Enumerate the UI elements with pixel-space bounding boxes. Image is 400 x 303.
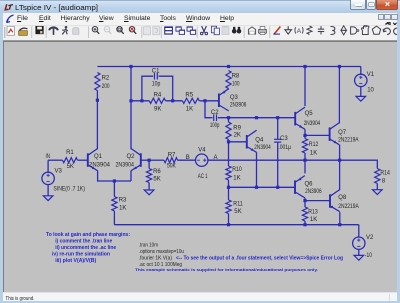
toolbar separator xyxy=(45,26,47,38)
wire node to C3 xyxy=(257,117,278,119)
svg-text:1K: 1K xyxy=(233,175,240,181)
junction emitters/R3 xyxy=(113,179,116,182)
app icon LTspice xyxy=(4,3,15,13)
junction R9/R10/Q4 base xyxy=(227,140,230,143)
wire IN to R1 xyxy=(48,159,62,161)
icon undo xyxy=(383,28,390,34)
icon halt (disabled) xyxy=(73,27,79,34)
svg-text:R11: R11 xyxy=(233,202,243,208)
junction R4/R5/C1 xyxy=(171,99,174,102)
wire Q5 collector up xyxy=(304,67,306,107)
resistor R11 xyxy=(226,200,231,214)
wire Q3 emitter stub xyxy=(228,89,230,90)
svg-text:50K: 50K xyxy=(167,164,176,170)
transistor Q1 xyxy=(87,153,89,167)
wire Q5 emitter to node xyxy=(304,129,306,135)
junction R2/Q1col xyxy=(96,99,99,102)
svg-text:-10: -10 xyxy=(365,253,373,259)
voltage source V1 xyxy=(355,74,367,86)
resistor R8 xyxy=(226,71,231,89)
voltage source V3 xyxy=(42,172,54,184)
wire C3 bottom down xyxy=(277,142,279,187)
svg-text:.fourier 1K V(a): .fourier 1K V(a) xyxy=(139,255,172,261)
wire node to R11 xyxy=(228,187,230,200)
wire V2 to ground xyxy=(358,250,360,256)
wire R11 to V- rail xyxy=(228,214,230,225)
toolbar gripper xyxy=(4,27,6,38)
transistor Q7 xyxy=(329,127,331,140)
resistor R4 xyxy=(149,98,165,103)
wire node A line xyxy=(208,159,377,161)
wire node to R12 xyxy=(304,135,306,138)
svg-text:5K: 5K xyxy=(234,209,241,215)
svg-text:2N3904: 2N3904 xyxy=(304,121,321,127)
svg-text:C1: C1 xyxy=(152,69,160,75)
svg-text:.tran 10m: .tran 10m xyxy=(139,243,158,249)
junction Q7e/Q8c/A xyxy=(338,159,341,162)
svg-text:2N2219A: 2N2219A xyxy=(338,138,359,144)
junction Q5e/R12/Q7base xyxy=(303,134,306,137)
icon place capacitor xyxy=(318,26,324,34)
wire R14 to ground xyxy=(376,184,378,190)
junction C3 bottom xyxy=(276,186,279,189)
wire Q8 emitter to V- rail xyxy=(339,212,341,225)
icon open xyxy=(19,28,28,35)
wire C2 to Q4 collector node xyxy=(218,117,257,119)
svg-text:V1: V1 xyxy=(367,72,375,78)
wire Q1 emitter to common node xyxy=(98,171,131,181)
wire rail down to Q2 collector xyxy=(130,67,132,150)
svg-text:R7: R7 xyxy=(168,152,176,158)
wire Q7 collector up xyxy=(338,67,340,124)
icon redo (cut off) xyxy=(394,28,400,34)
wire C3 to Q5 base xyxy=(278,117,296,119)
wire Q4 emitter down xyxy=(256,152,258,187)
ground V2 xyxy=(354,255,364,260)
svg-text:This example schematic is supp: This example schematic is supplied for i… xyxy=(135,268,318,272)
wire node to R4 xyxy=(131,100,149,102)
svg-text:Q5: Q5 xyxy=(305,111,314,117)
capacitor C3 xyxy=(274,138,281,140)
svg-text:9K: 9K xyxy=(154,106,161,112)
resistor R1 xyxy=(63,158,78,163)
icon draw wire (pencil) xyxy=(273,26,280,34)
wire node to Q6 base xyxy=(229,186,296,188)
svg-text:iv) re-run the simulation: iv) re-run the simulation xyxy=(52,251,110,257)
junction R12/Q6e/A xyxy=(303,159,306,162)
svg-text:R8: R8 xyxy=(232,74,240,80)
wire node to R7 xyxy=(149,159,164,161)
resistor R6 xyxy=(147,169,152,183)
junction Q4 col xyxy=(255,116,258,119)
wire rail to V1 xyxy=(360,67,362,75)
status bar xyxy=(3,292,397,301)
resistor R3 xyxy=(112,197,117,212)
icon paste (disabled) xyxy=(222,25,229,34)
transistor Q6 xyxy=(294,180,296,194)
svg-text:5K: 5K xyxy=(67,164,74,170)
icon copy xyxy=(211,26,219,35)
window title xyxy=(15,2,155,13)
svg-text:8: 8 xyxy=(382,179,386,185)
icon zoom in xyxy=(92,26,99,33)
svg-text:LTspice IV - [audioamp]: LTspice IV - [audioamp] xyxy=(15,5,98,12)
wire node to R13 xyxy=(304,201,306,207)
svg-text:iii) plot V(A)/V(B): iii) plot V(A)/V(B) xyxy=(55,258,96,264)
wire V- bottom rail xyxy=(114,224,358,226)
icon place inductor xyxy=(331,26,335,34)
wire R6 to ground xyxy=(148,183,150,190)
svg-text:.options maxstep=10u: .options maxstep=10u xyxy=(139,249,184,255)
wire R9 to node xyxy=(228,140,230,142)
svg-text:10p: 10p xyxy=(152,82,161,88)
ground R14 xyxy=(373,190,383,195)
voltage source V2 xyxy=(353,237,365,249)
svg-text:R13: R13 xyxy=(308,210,318,216)
wire A to R14 xyxy=(376,160,379,168)
toolbar separator xyxy=(243,26,245,38)
junction Q8/rail xyxy=(338,223,341,226)
svg-text:i) comment the .tran line: i) comment the .tran line xyxy=(55,239,113,245)
svg-text:1K: 1K xyxy=(310,217,317,223)
icon place component (star) xyxy=(341,25,346,34)
wire R4 to R5 xyxy=(166,100,183,102)
svg-text:Q7: Q7 xyxy=(338,130,347,136)
toolbar separator xyxy=(31,26,33,38)
wire node to R6 xyxy=(148,160,150,168)
svg-text:100: 100 xyxy=(232,81,240,87)
wire Q2 base to node xyxy=(141,159,149,161)
wire R10 to node xyxy=(228,180,230,187)
svg-text:V3: V3 xyxy=(55,168,63,174)
svg-text:2N3906: 2N3906 xyxy=(230,103,247,109)
ground V1 xyxy=(356,96,366,101)
junction R10/R11/Q6base xyxy=(227,186,230,189)
wire R2 bottom to Q1 collector xyxy=(96,91,98,150)
capacitor C2 xyxy=(213,114,215,121)
svg-text:Q2: Q2 xyxy=(127,154,136,160)
title bar xyxy=(0,0,400,13)
svg-text:2N3906: 2N3906 xyxy=(305,189,322,195)
wire R13 to V- rail xyxy=(304,221,306,225)
svg-text:Q8: Q8 xyxy=(338,195,347,201)
icon find binoculars xyxy=(232,26,241,33)
wire C1 left leg xyxy=(142,76,153,101)
icon place resistor xyxy=(307,25,312,34)
wire V+ top rail xyxy=(97,66,360,68)
svg-text:A: A xyxy=(297,28,302,35)
svg-text:Q3: Q3 xyxy=(230,95,239,101)
svg-text:AC 1: AC 1 xyxy=(198,174,208,180)
wire rail to V2 xyxy=(358,225,360,237)
wire node to R9 xyxy=(228,118,230,122)
wire node A to Q8 collector xyxy=(339,160,341,190)
junction rail/Q2col xyxy=(129,65,132,68)
wire R5 to Q3 base xyxy=(199,100,219,102)
junction Q2base/R6/R7 xyxy=(148,159,151,162)
caption button maximize/restore xyxy=(366,0,377,10)
svg-text:1K: 1K xyxy=(186,106,193,112)
junction rail/Q5col xyxy=(303,65,306,68)
svg-text:10: 10 xyxy=(367,88,374,94)
icon zoom rect xyxy=(117,26,124,33)
junction C3 top xyxy=(276,116,279,119)
wire Q6 emitter up to node A xyxy=(304,160,306,173)
capacitor C1 xyxy=(154,73,156,80)
caption button close xyxy=(376,0,398,10)
junction C1 left xyxy=(140,99,143,102)
transistor Q4 xyxy=(246,135,248,149)
caption button minimize xyxy=(350,0,366,10)
resistor R2 xyxy=(95,73,100,91)
junction Q6c/R13/Q8base xyxy=(303,199,306,202)
svg-text:V2: V2 xyxy=(366,235,374,241)
wire IN down to V3 xyxy=(47,160,49,172)
icon place label xyxy=(295,27,303,35)
resistor R10 xyxy=(226,166,231,180)
resistor R9 xyxy=(226,122,231,140)
svg-text:R5: R5 xyxy=(185,93,193,99)
svg-text:Q4: Q4 xyxy=(255,137,264,143)
wire R7 to V4 xyxy=(178,159,196,161)
wire C1 right leg xyxy=(159,76,173,101)
wire Q2 emitter down xyxy=(130,171,132,181)
svg-text:R4: R4 xyxy=(154,93,162,99)
icon save xyxy=(36,26,44,34)
junction Q3col/R9/C2 xyxy=(227,116,230,119)
icon move hand xyxy=(361,24,369,34)
wire node to C2 xyxy=(205,101,213,118)
junction Q4 emitter xyxy=(255,186,258,189)
svg-text:B: B xyxy=(186,155,190,161)
toolbar separator xyxy=(160,26,162,38)
svg-text:R2: R2 xyxy=(102,75,110,81)
junction R4 line left xyxy=(129,99,132,102)
icon tile windows xyxy=(164,26,173,34)
resistor R13 xyxy=(302,207,307,221)
icon disabled doc1 xyxy=(144,26,151,34)
wire Q6 collector to node xyxy=(304,198,306,201)
svg-text:ii) uncomment the .ac line: ii) uncomment the .ac line xyxy=(55,245,117,251)
svg-text:This is ground.: This is ground. xyxy=(6,295,35,301)
svg-text:R9: R9 xyxy=(233,126,241,132)
junction R13/rail xyxy=(303,223,306,226)
mdi child buttons xyxy=(378,14,385,21)
icon run xyxy=(62,26,68,35)
mdi child icon xyxy=(5,14,15,24)
resistor R14 xyxy=(375,169,380,184)
icon gate xyxy=(351,26,359,33)
wire node to Q7 base xyxy=(305,134,330,136)
toolbar separator xyxy=(269,26,271,38)
svg-text:A: A xyxy=(214,155,218,161)
svg-text:2K: 2K xyxy=(234,133,241,139)
menu bar xyxy=(3,13,397,25)
resistor R12 xyxy=(302,139,307,154)
icon new schematic xyxy=(7,26,15,35)
svg-text:1K: 1K xyxy=(119,205,126,211)
wire node down to R10 xyxy=(228,142,230,166)
svg-text:R1: R1 xyxy=(66,150,74,156)
svg-text:SINE(0 .7 1K): SINE(0 .7 1K) xyxy=(53,187,85,193)
svg-text:.001µ: .001µ xyxy=(278,145,291,151)
transistor Q3 xyxy=(218,94,220,108)
icon disabled doc2 xyxy=(153,26,160,34)
junction rail/R8 xyxy=(227,65,230,68)
wire node to Q4 base xyxy=(229,141,247,143)
svg-text:<-- To see the output of a .f: <-- To see the output of a .four stateme… xyxy=(176,255,343,261)
svg-text:2N3904: 2N3904 xyxy=(89,162,111,168)
svg-text:R12: R12 xyxy=(309,142,319,148)
voltage source V4 xyxy=(196,154,208,166)
svg-text:R10: R10 xyxy=(232,167,242,173)
ground V3 xyxy=(43,196,53,201)
icon drag (pentagon) xyxy=(372,26,380,34)
svg-text:R3: R3 xyxy=(119,197,127,203)
svg-text:C3: C3 xyxy=(280,136,288,142)
icon cut xyxy=(200,26,207,35)
toolbar separator xyxy=(88,26,90,38)
toolbar separator xyxy=(141,26,143,38)
svg-text:To look at gain and phase marg: To look at gain and phase margins: xyxy=(46,232,130,238)
svg-text:IN: IN xyxy=(46,154,51,160)
toolbar separator xyxy=(196,26,198,38)
wire R12 to node A line xyxy=(304,153,306,160)
svg-text:C2: C2 xyxy=(211,110,219,116)
svg-text:1K: 1K xyxy=(310,151,317,157)
transistor Q5 xyxy=(294,112,296,126)
wire V1 to ground xyxy=(360,87,362,97)
ground R6 xyxy=(144,190,154,195)
wire R3 to V- rail xyxy=(113,211,115,225)
toolbar xyxy=(3,25,397,41)
svg-text:R14: R14 xyxy=(380,171,390,177)
svg-text:R6: R6 xyxy=(153,169,161,175)
icon cascade 1 xyxy=(176,26,186,34)
junction rail/Q7col xyxy=(338,65,341,68)
svg-text:Q1: Q1 xyxy=(94,154,103,160)
icon place ground xyxy=(285,26,292,34)
svg-text:2N3904: 2N3904 xyxy=(254,145,271,151)
junction R11/rail xyxy=(227,223,230,226)
wire node to C3 top xyxy=(277,118,279,139)
icon cascade 2 xyxy=(187,26,196,34)
icon zoom back (disabled) xyxy=(104,26,111,33)
wire node to Q8 base xyxy=(305,200,330,202)
svg-text:2N2219A: 2N2219A xyxy=(338,204,359,210)
svg-text:V4: V4 xyxy=(198,148,206,154)
svg-text:200: 200 xyxy=(102,84,111,90)
svg-text:Q6: Q6 xyxy=(305,181,314,187)
wire R1 to Q1 base xyxy=(78,159,88,161)
resistor R7 xyxy=(164,158,178,163)
wire Q7 emitter to node A xyxy=(339,145,341,160)
transistor Q8 xyxy=(329,194,331,208)
svg-text:5K: 5K xyxy=(153,177,160,183)
icon print preview xyxy=(248,26,255,33)
icon print xyxy=(258,26,266,34)
junction Q3 base xyxy=(203,99,206,102)
resistor R5 xyxy=(182,98,199,103)
wire common node to R3 xyxy=(113,181,115,197)
transistor Q2 xyxy=(140,153,142,167)
icon zoom extents xyxy=(129,26,136,33)
svg-text:2N3904: 2N3904 xyxy=(116,162,135,168)
icon control panel xyxy=(48,27,58,35)
wire V3 to ground xyxy=(47,185,49,196)
svg-text:100p: 100p xyxy=(210,123,220,129)
